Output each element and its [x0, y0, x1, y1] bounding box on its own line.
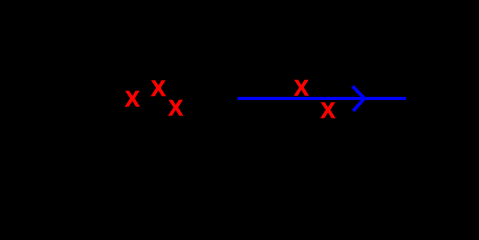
svg-text:X: X [168, 95, 183, 120]
svg-text:X: X [151, 76, 166, 101]
svg-text:X: X [294, 76, 309, 101]
wire contour line [238, 97, 407, 100]
arrowhead chevron [353, 86, 365, 111]
svg-text:X: X [125, 86, 140, 111]
svg-text:X: X [321, 98, 336, 123]
